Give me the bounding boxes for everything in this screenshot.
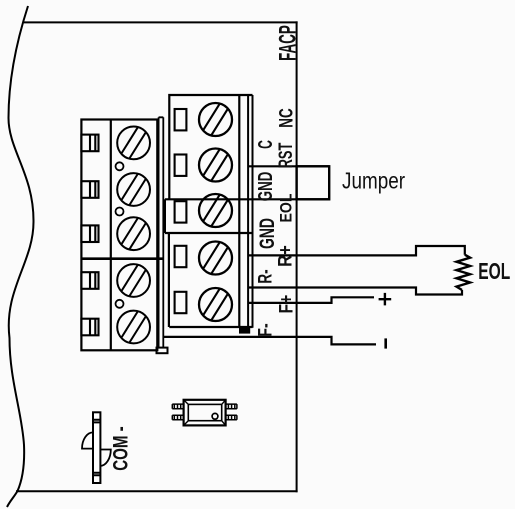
optocoupler U1 inner face (188, 404, 221, 420)
right block screw 4 (199, 242, 232, 275)
left block screw 3 (117, 217, 150, 250)
right block right edge (238, 95, 240, 327)
svg-text:F+: F+ (275, 295, 297, 314)
svg-text:RST: RST (275, 143, 297, 169)
piezo sounder right fin (100, 450, 111, 467)
svg-text:EOL: EOL (478, 258, 510, 284)
right block rail line 1 (247, 95, 249, 328)
optocoupler U1 right lead 1 (226, 404, 237, 409)
left block wire tab 1 (81, 135, 98, 152)
right block screw 2 (199, 149, 232, 182)
svg-text:GND: GND (256, 218, 279, 249)
piezo sounder body (93, 412, 100, 483)
right block wire slot 1 (175, 109, 187, 130)
resistor EOL zigzag (457, 255, 471, 290)
right block wire slot 3 (175, 201, 187, 222)
right block rail line 2 (252, 95, 254, 328)
right block screw 1 (199, 103, 232, 136)
left block index pin hole B (116, 208, 124, 216)
svg-text:F-: F- (255, 323, 277, 336)
svg-text:Jumper: Jumper (342, 168, 405, 194)
flange strip between blocks (159, 117, 164, 348)
piezo sounder left fin (82, 432, 93, 448)
left block wire tab 5 (81, 319, 98, 336)
right block rail foot (240, 328, 249, 333)
right terminal block outline (169, 95, 252, 327)
wire R+ to EOL resistor (248, 246, 465, 255)
svg-text:EOL: EOL (277, 194, 295, 223)
right block wire slot 4 (175, 246, 187, 267)
flange strip foot (157, 348, 168, 354)
svg-text:COM -: COM - (110, 426, 133, 471)
wire GND to jumper (165, 198, 329, 200)
optocoupler U1 left lead 2 (172, 415, 183, 420)
right block screw 3 (199, 194, 232, 227)
left block section divider (81, 257, 164, 260)
left block screw 2 (117, 173, 150, 206)
left block index pin hole A (116, 162, 124, 170)
optocoupler U1 right lead 2 (226, 415, 237, 420)
FACP board right border (296, 21, 298, 492)
svg-text:R+: R+ (274, 245, 296, 267)
left terminal block body (81, 120, 157, 351)
svg-text:NC: NC (275, 108, 297, 127)
label minus (rotated) (384, 338, 387, 348)
right block screw 5 (199, 288, 232, 321)
left block screw 4 (117, 264, 150, 297)
label plus (379, 293, 392, 306)
left block wire tab 2 (81, 181, 98, 198)
wire R- to EOL resistor (248, 288, 462, 295)
svg-text:R-: R- (255, 269, 277, 283)
left block wire tab 3 (81, 225, 98, 242)
wire F- (163, 337, 376, 345)
left block screw 5 (117, 311, 150, 344)
FACP board top border (24, 21, 298, 23)
right block wire slot 5 (175, 292, 187, 313)
svg-text:C: C (255, 140, 277, 149)
right block left protrusion (165, 199, 169, 327)
svg-text:FACP: FACP (274, 25, 301, 61)
optocoupler U1 left lead 1 (172, 404, 183, 409)
FACP board bottom border (16, 490, 298, 492)
right block section divider (165, 232, 253, 234)
wire RST to jumper (248, 165, 329, 167)
optocoupler U1 bevel corners (184, 400, 226, 426)
jumper box (297, 166, 330, 199)
left block index pin hole C (116, 300, 124, 308)
torn left edge of FACP board (7, 6, 34, 507)
svg-text:GND: GND (254, 172, 277, 202)
optocoupler U1 body (184, 400, 226, 426)
optocoupler U1 pin1 dot (212, 413, 218, 419)
left block screw 1 (117, 126, 150, 159)
right block wire slot 2 (175, 155, 187, 176)
left block wire tab 4 (81, 272, 98, 289)
left block internal divider line (110, 120, 112, 351)
wire F+ (248, 297, 374, 303)
